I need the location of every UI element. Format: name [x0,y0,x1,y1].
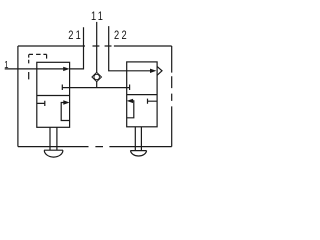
wire check valve to mid line [96,82,98,88]
svg-text:22: 22 [114,29,129,43]
pilot line dashes (valve V1 control) [29,53,47,55]
valve V2 flow path arrow [127,70,151,72]
enclosure boundary top edge [18,45,172,47]
valve V1 body [37,62,70,127]
valve V1 position divider [37,95,70,97]
valve V2 blocked port bar (bottom square right) [148,99,158,104]
check valve C1 diamond [92,72,102,81]
silencer S1 [44,150,63,157]
enclosure boundary left edge [17,46,19,147]
wire V2 bottom exhaust ports [135,127,141,151]
wire V1 outlet to port 21 [70,27,84,69]
valve V1 blocked port bar (bottom square left) [37,101,45,106]
valve V2 exhaust chevron (open triangle) [157,67,162,76]
valve V1 exhaust U path with arrow [61,103,69,121]
valve V2 body [127,62,157,127]
wire V1 bottom exhaust ports [50,127,57,150]
valve V2 exhaust U path with arrow [127,101,134,118]
svg-text:21: 21 [68,29,83,43]
wire port 1 supply line [5,68,37,70]
valve V1 flow path arrow [37,68,64,70]
valve V1 blocked port bar (top square right) [61,85,63,91]
node port 11 line [96,22,98,72]
enclosure boundary right edge [171,46,173,147]
valve V2 position divider [127,94,157,96]
enclosure boundary bottom edge [18,146,172,148]
svg-text:1: 1 [4,59,11,70]
junction blocked bar V2 left [129,85,131,91]
wire mid line (V1 right port to V2 left port, under check valve) [62,87,129,89]
check valve C1 ball [94,74,100,80]
wire port 22 to valve V2 [109,26,127,71]
silencer S2 [130,151,146,156]
svg-text:11: 11 [91,10,105,24]
